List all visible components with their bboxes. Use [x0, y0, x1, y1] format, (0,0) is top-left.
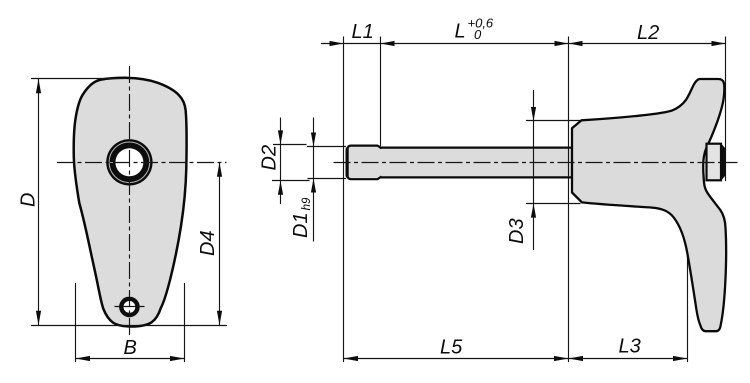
D1 top extension line — [307, 146, 346, 148]
top dimension line (L1, L, L2) — [321, 43, 726, 45]
L2 right arrow — [712, 41, 726, 46]
ring hole outer (washer) — [106, 139, 152, 185]
D3 arrow down — [531, 107, 536, 121]
extension line shaft-handle junction — [568, 37, 570, 363]
dimension D line — [38, 79, 40, 325]
dimension D arrow up — [36, 79, 41, 94]
small bottom hole — [121, 299, 137, 315]
ball seat bump outline — [348, 146, 382, 180]
L3 arrow right — [673, 356, 688, 361]
bottom dimension line (L5, L3) — [344, 358, 688, 360]
svg-text:L1: L1 — [352, 21, 374, 43]
L5 arrow right — [554, 356, 569, 361]
dimension D / D4 bottom extension line — [31, 325, 227, 327]
dimension B arrow right — [170, 356, 185, 361]
L5 arrow left — [344, 356, 359, 361]
ring centerline glints — [106, 162, 116, 164]
dimension B arrow left — [76, 356, 91, 361]
svg-text:0: 0 — [474, 27, 482, 42]
D2 arrow down — [278, 130, 283, 144]
svg-text:B: B — [124, 337, 137, 359]
L left arrow — [381, 41, 395, 46]
D1 arrow down — [311, 133, 316, 147]
dimension D top extension line — [31, 78, 125, 80]
dimension D1 line — [313, 118, 315, 242]
T-grip handle side view — [572, 79, 726, 331]
D2 bottom extension line — [272, 180, 310, 182]
ball seat bump fill — [348, 146, 380, 178]
dimension D4 arrow up — [217, 162, 222, 177]
dimension D arrow down — [36, 311, 41, 326]
svg-text:L5: L5 — [440, 337, 463, 359]
L3 arrow left — [569, 356, 584, 361]
svg-text:D4: D4 — [197, 230, 219, 256]
dimension D4 arrow down — [217, 311, 222, 326]
svg-text:D2: D2 — [259, 145, 281, 171]
dimension B line — [76, 358, 185, 360]
dimension B left extension line — [75, 283, 77, 362]
handle front view body — [74, 78, 187, 327]
pin shaft — [347, 148, 574, 178]
extension line end of ball seat — [380, 37, 382, 147]
L right arrow — [555, 41, 569, 46]
end cap right face band — [721, 143, 726, 182]
D2 arrow up — [278, 181, 283, 195]
extension line handle right end — [725, 37, 727, 182]
D2 top extension line — [273, 144, 307, 146]
small hole horizontal crosshair — [115, 306, 145, 308]
extension line pin tip — [343, 37, 345, 363]
dimension D3 line — [533, 90, 535, 250]
main axis centerline — [334, 162, 738, 164]
ring hole highlight circle — [109, 142, 150, 183]
svg-text:D: D — [18, 193, 40, 207]
dimension B right extension line — [184, 283, 186, 362]
svg-text:L3: L3 — [619, 336, 641, 358]
D3 arrow up — [531, 204, 536, 218]
dimension D2 line — [280, 118, 282, 205]
L2 left arrow — [569, 41, 583, 46]
D3 bottom tick — [526, 203, 581, 205]
end cap body — [707, 144, 722, 181]
dimension D4 line — [219, 162, 221, 325]
ring hole inner bore — [115, 148, 143, 176]
D1 bottom extension line — [308, 178, 347, 180]
svg-text:D3: D3 — [506, 218, 528, 244]
front view horizontal centerline through ring — [57, 162, 227, 164]
svg-text:L2: L2 — [637, 22, 659, 44]
extension line L3 right — [687, 253, 689, 362]
D3 top tick — [526, 120, 586, 122]
svg-text:L: L — [455, 21, 466, 43]
L1 outside arrow — [330, 41, 344, 46]
D1 arrow up — [311, 179, 316, 193]
front view vertical centerline — [129, 66, 131, 336]
